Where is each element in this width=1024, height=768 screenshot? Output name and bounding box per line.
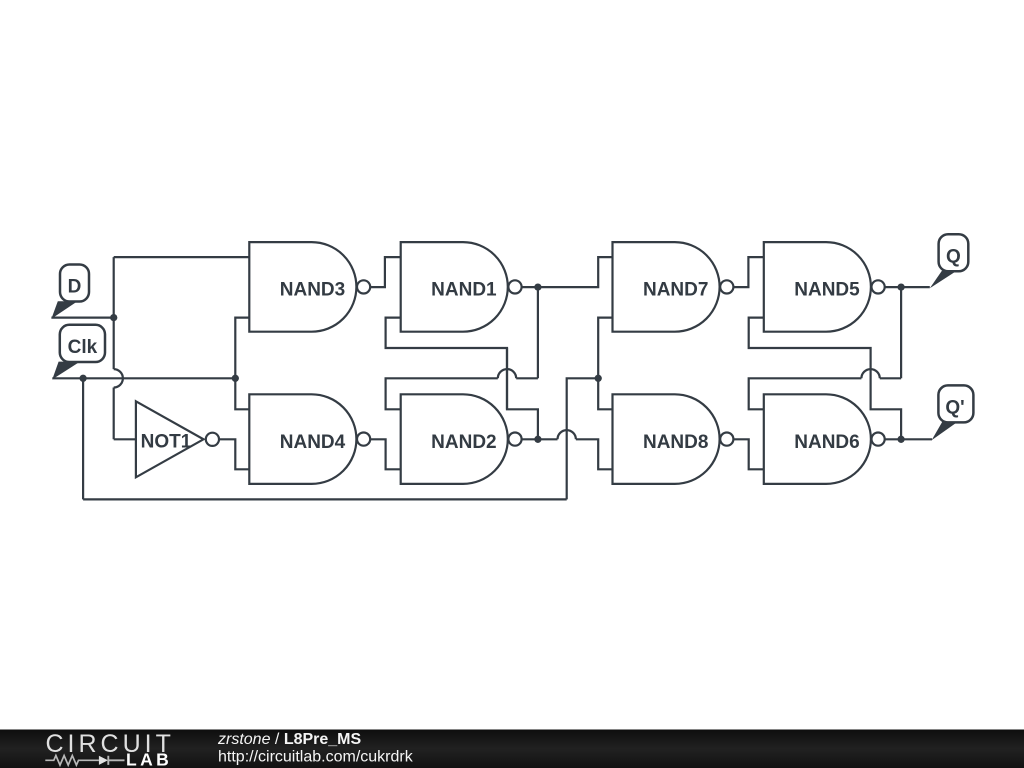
logo resistor zigzag — [45, 756, 99, 766]
wire NOT1 output to NAND4 bottom input — [220, 439, 252, 469]
wire NAND3 output to NAND1 top input — [371, 257, 402, 287]
inverter NOT1 — [136, 401, 219, 477]
wire Clk down from junction — [82, 378, 84, 499]
svg-text:Clk: Clk — [68, 337, 98, 358]
junction dot Clk slave — [595, 375, 602, 382]
junction dot Clk gates — [232, 375, 239, 382]
wire Clk flag horizontal — [52, 377, 235, 379]
svg-text:NAND5: NAND5 — [794, 280, 860, 301]
svg-text:http://circuitlab.com/cukrdrk: http://circuitlab.com/cukrdrk — [218, 749, 414, 766]
flag D — [51, 265, 89, 319]
svg-text:NAND6: NAND6 — [794, 432, 859, 453]
svg-text:Q': Q' — [945, 398, 964, 419]
svg-text:LAB: LAB — [126, 749, 172, 768]
svg-text:NAND2: NAND2 — [431, 432, 496, 453]
wire NAND6 output feedback to NAND5 bottom input — [749, 318, 901, 440]
wire Clk bottom route — [83, 498, 567, 500]
wire NAND2 output to NAND8 bottom input (hop at 566.7) — [522, 439, 614, 469]
wire NAND4 output to NAND2 bottom input — [371, 439, 402, 469]
wire hop feedback1 — [498, 369, 516, 378]
wire NAND7 output to NAND5 top input — [734, 257, 766, 287]
wire NAND8 output to NAND6 bottom input — [734, 439, 766, 469]
wire Clk to NAND3 bottom input — [235, 318, 251, 379]
wire NAND2 output feedback to NAND1 bottom input — [386, 318, 538, 440]
wire NAND5 output to Q — [885, 286, 929, 288]
flag Q — [930, 234, 969, 288]
nand gate NAND1 — [401, 242, 522, 332]
svg-text:Q: Q — [946, 247, 961, 268]
wire D flag to junction — [51, 317, 113, 319]
junction dot Q — [897, 283, 904, 290]
svg-text:NAND1: NAND1 — [431, 280, 497, 301]
svg-text:D: D — [68, 277, 82, 298]
wire NAND6 output to Q' — [885, 438, 932, 440]
logo diode — [99, 756, 108, 765]
nand gate NAND3 — [249, 242, 370, 332]
junction dot D — [110, 314, 117, 321]
wire D to NOT1 input — [114, 438, 137, 440]
wire hop feedback2 — [861, 369, 879, 378]
wire cross vertical master — [506, 348, 508, 409]
junction dot NAND2 out — [534, 436, 541, 443]
svg-text:NAND8: NAND8 — [643, 432, 708, 453]
wire NAND1 output drop — [537, 287, 539, 378]
flag Q' — [932, 385, 974, 440]
wire Clk to NAND7 bottom input — [598, 318, 614, 379]
svg-text:NAND7: NAND7 — [643, 280, 708, 301]
junction dot Clk — [79, 375, 86, 382]
svg-text:zrstone / L8Pre_MS: zrstone / L8Pre_MS — [217, 731, 362, 748]
wire D vertical (hops over Clk) — [113, 257, 115, 439]
nand gate NAND6 — [764, 394, 885, 484]
wire NAND5 output drop — [900, 287, 902, 378]
nand gate NAND7 — [613, 242, 734, 332]
wire NAND1 feedback to NAND2 top input (hop at 507) — [386, 378, 538, 409]
svg-text:NOT1: NOT1 — [141, 431, 192, 452]
wire Clk rise to slave — [567, 378, 599, 499]
nand gate NAND8 — [613, 394, 734, 484]
wire hop NAND2 out — [558, 430, 576, 439]
wire hop on D vertical over Clk — [114, 369, 123, 387]
wire Clk to NAND8 top input — [598, 378, 614, 409]
junction dot Q' — [897, 436, 904, 443]
wire Q feedback to NAND6 top input (hop at 870.6) — [749, 378, 901, 409]
wire Clk to NAND4 top input — [235, 378, 251, 409]
nand gate NAND5 — [764, 242, 885, 332]
svg-text:NAND3: NAND3 — [280, 280, 345, 301]
svg-text:NAND4: NAND4 — [280, 432, 346, 453]
flag Clk — [52, 325, 105, 380]
nand gate NAND2 — [401, 394, 522, 484]
wire NAND1 output to NAND7 top input — [522, 257, 614, 287]
junction dot NAND1 out — [534, 283, 541, 290]
wire D top to NAND3 top input — [114, 256, 251, 258]
nand gate NAND4 — [249, 394, 370, 484]
